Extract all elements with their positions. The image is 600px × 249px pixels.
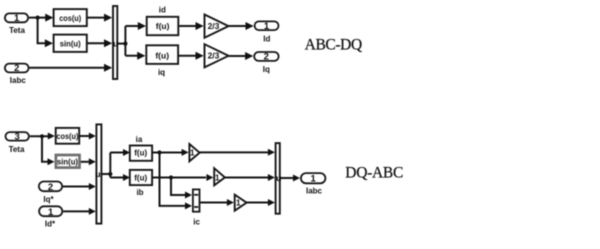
wire f(u) iq to gain 2/3 [179, 55, 197, 57]
svg-text:cos(u): cos(u) [59, 13, 81, 23]
wire port3 to junction [30, 135, 49, 137]
inport 3 Teta [6, 132, 29, 154]
gain 2/3 top [205, 15, 229, 38]
svg-text:u: u [276, 173, 281, 183]
svg-text:sin(u): sin(u) [60, 38, 81, 48]
svg-text:f(u): f(u) [134, 174, 147, 183]
arrowhead into mux2 from Id* [89, 208, 96, 215]
wire cos2 output to mux2 [80, 135, 90, 137]
arrowhead into f(u) iq [137, 52, 145, 60]
svg-text:DQ-ABC: DQ-ABC [345, 164, 403, 181]
wire port1 to junction [29, 17, 46, 19]
arrowhead into gain 2/3 top [196, 22, 204, 30]
wire sin(u) output to mux1 [88, 42, 106, 44]
sum block ic (minus minus) [193, 189, 201, 226]
arrowhead into f(u) ib [123, 174, 130, 181]
arrowhead into cos(u) [45, 14, 53, 22]
inport 1 Id* [39, 206, 62, 228]
svg-text:2: 2 [14, 63, 19, 74]
arrowhead into f(u) id [138, 22, 146, 30]
gain1 (ia) [189, 144, 199, 161]
svg-text:Teta: Teta [9, 145, 25, 154]
arrowhead into mux1 from cos [104, 14, 112, 22]
block sin(u) bottom (thick border) [56, 155, 80, 168]
svg-text:Iabc: Iabc [306, 187, 323, 196]
svg-text:1: 1 [190, 148, 195, 157]
wire mux2 output to junction [102, 173, 110, 175]
wire port Id* to mux2 [63, 210, 90, 212]
mux3 [276, 143, 282, 214]
svg-text:id: id [159, 6, 166, 15]
svg-text:u: u [113, 39, 118, 49]
arrowhead into mux3 from gain2 [268, 174, 275, 181]
gain 2/3 bottom [205, 44, 229, 67]
gain2 (ib) [214, 168, 225, 185]
svg-text:f(u): f(u) [156, 21, 170, 31]
wire ib branch down to sum ic upper input [171, 178, 186, 196]
svg-text:1: 1 [215, 174, 220, 183]
wire branch to f(u) ia [110, 152, 124, 154]
svg-text:iq: iq [158, 68, 165, 77]
arrowhead into gain3 [227, 199, 234, 206]
wire junction down to sin2 row [42, 136, 49, 162]
arrowhead into mux2 from Iq* [89, 183, 96, 190]
outport 1 Iabc [301, 173, 326, 195]
wire branch to f(u) iq [125, 55, 139, 57]
svg-text:Id*: Id* [45, 220, 56, 229]
arrowhead into cos2 [48, 133, 55, 140]
arrowhead into gain 2/3 bottom [196, 52, 204, 60]
wire gain2 to mux3 [225, 177, 269, 179]
wire cos(u) output to mux1 [88, 17, 106, 19]
svg-text:ib: ib [136, 188, 143, 197]
arrowhead into outport Id [246, 22, 254, 30]
gain3 (ic) [235, 195, 247, 211]
wire port Iq* to mux2 [63, 186, 90, 188]
wire gain to outport Id [229, 25, 248, 27]
arrowhead into outport Iabc [293, 175, 300, 182]
block f(u) ia [130, 135, 152, 161]
mux2 [95, 124, 101, 223]
outport 2 Iq [254, 52, 278, 74]
svg-text:Iq*: Iq* [43, 195, 54, 204]
arrowhead into sin(u) [45, 39, 53, 47]
svg-text:2/3: 2/3 [208, 51, 220, 61]
arrowhead into gain2 [206, 174, 213, 181]
mux1 [113, 6, 118, 79]
wire sum ic to gain3 [200, 202, 227, 204]
wire branch to f(u) ib [110, 177, 124, 179]
svg-text:1: 1 [14, 13, 20, 24]
arrowhead into sin2 [48, 158, 55, 165]
svg-text:2: 2 [48, 182, 53, 193]
wire junction down to sin row [38, 18, 47, 44]
wire branch to f(u) id [125, 25, 139, 27]
junction on ia wire [157, 150, 161, 154]
wire f(u) id to gain 2/3 [179, 25, 197, 27]
wire f(u) ia to gain1 [152, 152, 183, 154]
block sin(u) [54, 35, 87, 52]
wire gain3 to mux3 [247, 202, 269, 204]
arrowhead into mux3 from gain1 [268, 149, 275, 156]
wire port2 Iabc to mux1 [30, 67, 106, 69]
junction on ib wire [169, 175, 173, 179]
block f(u) iq [146, 45, 178, 77]
junction at mux2 output [108, 172, 112, 176]
svg-text:sin(u): sin(u) [57, 157, 78, 167]
svg-text:2: 2 [264, 52, 269, 63]
block cos(u) [54, 9, 87, 26]
wire ia branch down to sum ic lower input [160, 153, 187, 206]
junction at mux1 output [123, 42, 127, 46]
wire gain to outport Iq [229, 55, 247, 57]
outport 1 Id [255, 21, 279, 43]
wire sin2 output to mux2 [81, 161, 90, 163]
svg-text:ia: ia [136, 135, 143, 144]
arrowhead into f(u) ia [123, 149, 130, 156]
svg-text:u: u [95, 169, 100, 179]
svg-text:1: 1 [264, 21, 270, 32]
wire f(u) ib to gain2 [152, 177, 207, 179]
svg-text:1: 1 [48, 207, 54, 218]
svg-text:Teta: Teta [9, 26, 25, 35]
inport 2 Iq* [39, 182, 62, 205]
svg-text:f(u): f(u) [155, 51, 169, 61]
svg-text:cos(u): cos(u) [56, 131, 78, 141]
arrowhead into mux1 from Iabc [104, 64, 112, 72]
wire mux1 output to junction [118, 43, 125, 45]
svg-text:ABC-DQ: ABC-DQ [305, 37, 363, 54]
svg-text:2/3: 2/3 [208, 21, 220, 31]
svg-text:3: 3 [15, 132, 20, 143]
svg-text:Iq: Iq [263, 65, 270, 74]
block cos(u) bottom [56, 128, 79, 144]
wire branch vertical id/iq [124, 26, 126, 56]
svg-text:ic: ic [193, 217, 200, 226]
arrowhead into sum ic upper [185, 192, 192, 199]
junction after port1 Teta [36, 16, 40, 20]
arrowhead into gain1 [182, 149, 189, 156]
wire gain1 to mux3 [200, 151, 269, 153]
svg-text:Iabc: Iabc [10, 76, 27, 85]
arrowhead into sum ic lower [185, 202, 192, 209]
inport 2 Iabc [5, 63, 29, 85]
arrowhead into outport Iq [245, 52, 253, 60]
block f(u) ib [130, 170, 152, 197]
inport 1 Teta [5, 13, 28, 35]
wire mux3 output to outport Iabc [281, 177, 295, 179]
wire branch vertical ia/ib [109, 153, 111, 178]
block f(u) id [147, 6, 179, 36]
arrowhead into mux2 from cos2 [89, 133, 96, 140]
arrowhead into mux3 from gain3 [268, 199, 275, 206]
junction after port3 Teta [40, 134, 44, 138]
arrowhead into mux1 from sin [104, 39, 112, 47]
svg-text:1: 1 [236, 199, 241, 208]
svg-text:Id: Id [263, 35, 270, 44]
arrowhead into mux2 from sin2 [89, 158, 96, 165]
svg-text:f(u): f(u) [134, 149, 147, 158]
svg-text:1: 1 [310, 173, 316, 184]
